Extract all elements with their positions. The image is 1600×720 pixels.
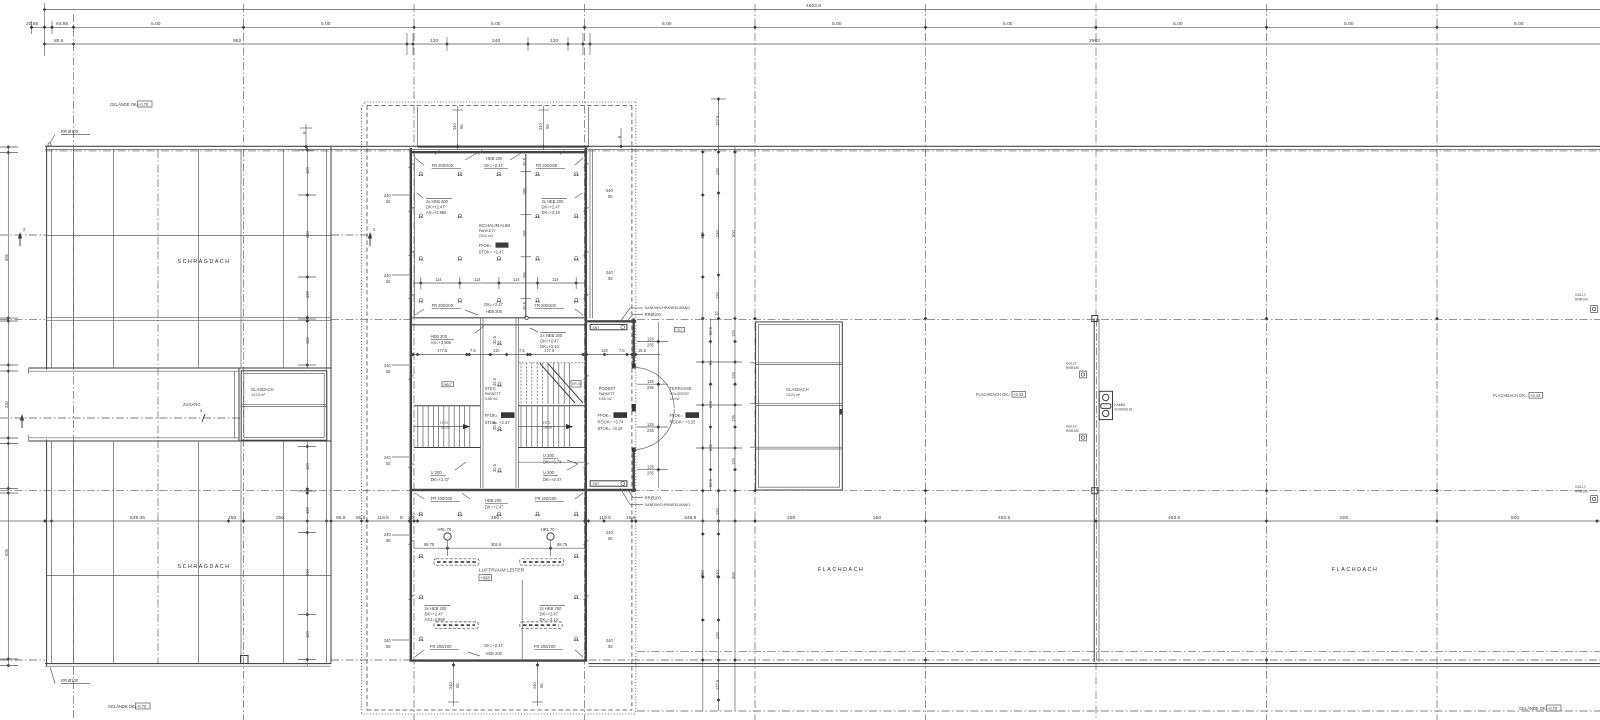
svg-text:240: 240 xyxy=(305,568,310,576)
half-grid column x=158 (halls) xyxy=(157,150,159,664)
svg-text:-0.70: -0.70 xyxy=(137,704,147,709)
dim line A total xyxy=(43,3,1600,56)
labels under schauraum south wall xyxy=(431,326,484,345)
east wall lower segment xyxy=(633,450,635,493)
svg-text:605: 605 xyxy=(4,548,9,556)
svg-text:FR 200/200: FR 200/200 xyxy=(534,644,556,649)
svg-text:FLACHDACH: FLACHDACH xyxy=(1332,567,1378,573)
aisle columns xyxy=(492,335,502,472)
svg-text:605: 605 xyxy=(4,253,9,261)
grid row y=150.9 xyxy=(45,150,410,152)
svg-text:125: 125 xyxy=(731,457,736,465)
svg-text:480: 480 xyxy=(491,515,499,521)
door arc lower xyxy=(634,409,675,450)
svg-text:240: 240 xyxy=(492,38,500,44)
svg-text:96.9: 96.9 xyxy=(336,515,346,521)
svg-text:18/28: 18/28 xyxy=(440,426,449,430)
svg-text:RR Ø100: RR Ø100 xyxy=(61,129,79,134)
svg-text:55: 55 xyxy=(455,683,460,688)
svg-text:ROOK= +3.74: ROOK= +3.74 xyxy=(598,420,625,425)
svg-text:HEB 200: HEB 200 xyxy=(486,309,503,314)
svg-text:5.00: 5.00 xyxy=(1173,21,1183,27)
svg-text:HTG: HTG xyxy=(543,421,551,425)
corridor top edge (upper hall bottom) xyxy=(29,367,240,369)
GELAENDE box bottom-left xyxy=(108,703,150,709)
svg-text:240: 240 xyxy=(538,122,543,130)
schauraum south boundary double line xyxy=(410,317,588,319)
svg-text:ZUGANG: ZUGANG xyxy=(183,402,201,407)
PODEST labels xyxy=(599,386,616,401)
svg-text:120: 120 xyxy=(305,290,310,298)
dim labels along y=521 xyxy=(130,515,1519,521)
drain square on lower hall bottom edge xyxy=(241,656,249,664)
svg-text:+3.7: +3.7 xyxy=(676,328,683,332)
svg-text:85.6: 85.6 xyxy=(54,38,64,44)
svg-text:FR 200/200: FR 200/200 xyxy=(535,303,557,308)
svg-text:+2.78: +2.78 xyxy=(687,413,698,418)
gully right-2 xyxy=(1575,485,1597,502)
svg-text:114: 114 xyxy=(435,277,442,282)
hatched strips row1 xyxy=(434,559,564,565)
svg-text:30.5: 30.5 xyxy=(522,301,527,310)
gully right-1 xyxy=(1575,293,1597,312)
svg-text:HEB 200: HEB 200 xyxy=(485,498,502,503)
svg-text:FR 200/200: FR 200/200 xyxy=(535,496,557,501)
svg-text:RRØ100: RRØ100 xyxy=(645,496,662,501)
grid row y=651.3 right xyxy=(637,650,1600,652)
lower hall eave line xyxy=(47,575,331,577)
svg-text:SCHRÄGDACH: SCHRÄGDACH xyxy=(178,563,231,570)
svg-text:STOK= +2.47: STOK= +2.47 xyxy=(479,250,505,255)
grid column 8 x=1266.5 xyxy=(1266,4,1268,720)
top edge double line xyxy=(45,145,1600,147)
svg-text:10: 10 xyxy=(714,311,719,316)
dotted envelope xyxy=(362,102,636,714)
svg-text:15.6: 15.6 xyxy=(626,515,636,521)
svg-text:13.24 m²: 13.24 m² xyxy=(251,393,266,397)
svg-text:OK=+2.47: OK=+2.47 xyxy=(484,643,503,648)
svg-text:30.5: 30.5 xyxy=(522,157,527,166)
glasdach east box xyxy=(750,322,842,490)
podest north wall xyxy=(587,320,636,322)
svg-text:2x HEB 200: 2x HEB 200 xyxy=(540,606,563,611)
svg-text:250: 250 xyxy=(873,515,881,521)
dim line y=357.3 xyxy=(410,348,660,356)
small dim 8/120 near x=306 top xyxy=(300,124,312,150)
svg-text:SCHRÄGDACH: SCHRÄGDACH xyxy=(178,258,231,265)
TERRASSE labels xyxy=(670,386,692,401)
svg-text:HEB 200: HEB 200 xyxy=(486,651,503,656)
svg-text:88.75: 88.75 xyxy=(557,542,568,547)
svg-text:TERRASSE: TERRASSE xyxy=(670,386,692,391)
mid wall (stair/luftraum separation) xyxy=(410,489,588,491)
svg-text:125: 125 xyxy=(647,422,655,427)
svg-text:-0.70: -0.70 xyxy=(1548,706,1558,711)
halls right wall xyxy=(330,146,332,663)
luftraum columns row xyxy=(419,512,579,516)
svg-text:185: 185 xyxy=(522,271,527,279)
grid row y=660 near bottom edge xyxy=(0,659,45,661)
svg-text:SNT: SNT xyxy=(593,482,600,486)
boxed +3.78 level xyxy=(675,327,685,332)
svg-text:240: 240 xyxy=(384,638,392,643)
gully mid-2 xyxy=(1066,425,1086,441)
svg-text:177.5: 177.5 xyxy=(544,348,555,353)
svg-text:AX=+3.986: AX=+3.986 xyxy=(426,210,447,215)
room west wall xyxy=(410,148,412,662)
upper hall ridge double line y=318.5 xyxy=(47,316,331,318)
svg-text:U 200: U 200 xyxy=(543,453,555,458)
svg-text:+2.52: +2.52 xyxy=(502,413,513,418)
svg-text:240: 240 xyxy=(384,532,392,537)
upper hall eave line xyxy=(47,235,331,237)
svg-text:62.5: 62.5 xyxy=(708,326,713,335)
svg-text:RNR100: RNR100 xyxy=(1575,489,1588,493)
grid column 4 x=584.5 xyxy=(584,4,586,720)
svg-text:5.65 m2: 5.65 m2 xyxy=(599,397,612,401)
svg-text:120: 120 xyxy=(715,631,720,639)
svg-text:110: 110 xyxy=(493,348,500,353)
svg-text:DK=+2.47: DK=+2.47 xyxy=(485,505,504,510)
svg-text:250: 250 xyxy=(787,515,795,521)
svg-text:5.00: 5.00 xyxy=(321,21,331,27)
svg-text:SANDWICHPANEELWAND: SANDWICHPANEELWAND xyxy=(645,306,691,310)
svg-text:7.5: 7.5 xyxy=(619,348,625,353)
terrasse row ticks xyxy=(696,362,742,448)
east finish lines beside room xyxy=(589,150,591,318)
svg-text:HRL 70: HRL 70 xyxy=(541,527,555,532)
svg-text:5.00: 5.00 xyxy=(832,21,842,27)
svg-text:625: 625 xyxy=(708,443,713,451)
stub dims above north wall xyxy=(452,106,464,150)
svg-text:55: 55 xyxy=(608,536,613,541)
svg-text:+3.43: +3.43 xyxy=(1013,392,1024,397)
svg-text:120: 120 xyxy=(305,630,310,638)
svg-text:SANDWICHPANEELWAND: SANDWICHPANEELWAND xyxy=(645,503,691,507)
svg-text:5.00: 5.00 xyxy=(1003,21,1013,27)
dim chain x=718.5 xyxy=(711,97,726,711)
svg-text:U 200: U 200 xyxy=(543,470,555,475)
svg-text:GLASDACH: GLASDACH xyxy=(786,387,809,392)
svg-text:240: 240 xyxy=(532,681,537,689)
east wall mid hinge xyxy=(632,404,636,412)
luftraum 2x HEB labels xyxy=(425,606,451,623)
luftraum south wall xyxy=(410,659,588,661)
svg-text:OK=+2.47: OK=+2.47 xyxy=(484,163,503,168)
svg-text:64.95: 64.95 xyxy=(56,21,69,27)
grid column 7 x=1096 xyxy=(1095,4,1097,318)
GELAENDE box top-left xyxy=(110,101,152,107)
svg-text:7.5: 7.5 xyxy=(519,348,525,353)
grid column 9 x=1437 xyxy=(1436,4,1438,720)
svg-text:120: 120 xyxy=(715,291,720,299)
labels under mid wall xyxy=(415,493,470,501)
door leaf posts xyxy=(632,364,636,369)
svg-text:114: 114 xyxy=(513,277,520,282)
svg-text:LUFTRAUM LEITER: LUFTRAUM LEITER xyxy=(479,568,525,574)
svg-text:FLACHDACH: FLACHDACH xyxy=(818,567,864,573)
svg-text:500: 500 xyxy=(1340,515,1348,521)
svg-text:PARKETT: PARKETT xyxy=(485,392,502,396)
svg-text:62.5: 62.5 xyxy=(708,478,713,487)
svg-text:55: 55 xyxy=(386,461,391,466)
node at mullion/south wall xyxy=(525,316,528,319)
svg-text:18/28: 18/28 xyxy=(543,426,552,430)
svg-text:240: 240 xyxy=(715,229,720,237)
grid row 2 y=235 left margin with arrow xyxy=(0,227,47,246)
grid column 2 x=243.5 xyxy=(243,4,245,720)
svg-text:120: 120 xyxy=(305,166,310,174)
east wall upper segment xyxy=(633,319,635,367)
flachdach level labels xyxy=(976,391,1026,397)
svg-text:DK=+2.47: DK=+2.47 xyxy=(426,205,445,210)
svg-text:55: 55 xyxy=(608,644,613,649)
svg-text:55: 55 xyxy=(459,124,464,129)
svg-text:2x HEB 200: 2x HEB 200 xyxy=(542,199,565,204)
svg-text:240: 240 xyxy=(384,273,392,278)
svg-text:30.5: 30.5 xyxy=(492,377,497,386)
svg-text:7.5: 7.5 xyxy=(470,348,476,353)
svg-text:125: 125 xyxy=(731,414,736,422)
left stair xyxy=(414,406,481,448)
grid row 2 right margin arrow xyxy=(331,227,376,246)
svg-text:625: 625 xyxy=(708,400,713,408)
FFOK steg xyxy=(485,412,515,425)
svg-text:20.65: 20.65 xyxy=(26,21,39,27)
svg-text:FLACHDACH OK=: FLACHDACH OK= xyxy=(976,392,1011,397)
svg-text:FR 200/200: FR 200/200 xyxy=(536,163,558,168)
svg-text:+2.52: +2.52 xyxy=(497,243,508,248)
svg-text:114: 114 xyxy=(552,277,559,282)
dim chain x=735 xyxy=(731,146,737,711)
svg-text:FR 200/200: FR 200/200 xyxy=(430,644,452,649)
grid column 5 x=755 xyxy=(754,4,756,720)
svg-text:55: 55 xyxy=(386,199,391,204)
svg-text:13.24 m²: 13.24 m² xyxy=(786,393,801,397)
svg-text:125: 125 xyxy=(647,465,655,470)
svg-text:30.5: 30.5 xyxy=(492,335,497,344)
svg-text:95: 95 xyxy=(708,360,713,365)
svg-text:PARKETT: PARKETT xyxy=(479,229,497,233)
mullion line center xyxy=(521,154,532,318)
grid column 1 x=73.5 xyxy=(73,14,75,720)
svg-text:3.58 m2: 3.58 m2 xyxy=(485,397,498,401)
svg-text:DK=+2.47: DK=+2.47 xyxy=(484,302,503,307)
dim line C xyxy=(43,33,1600,55)
svg-text:493.5: 493.5 xyxy=(1168,515,1181,521)
grid column 6 x=925.5 xyxy=(925,4,927,720)
podest south wall xyxy=(587,489,636,491)
svg-text:500: 500 xyxy=(1511,515,1519,521)
svg-text:480: 480 xyxy=(700,231,705,239)
svg-text:PARKETT: PARKETT xyxy=(599,392,616,396)
svg-text:2314 m2: 2314 m2 xyxy=(479,234,494,238)
svg-text:185: 185 xyxy=(522,229,527,237)
hatched strips row2 xyxy=(434,622,562,628)
bottom dashed row y=711 xyxy=(637,710,1600,712)
svg-text:30.5: 30.5 xyxy=(492,421,497,430)
svg-text:120: 120 xyxy=(305,336,310,344)
svg-text:KAMIN: KAMIN xyxy=(1114,403,1125,407)
svg-text:PODEST: PODEST xyxy=(599,386,616,391)
svg-text:HRL 70: HRL 70 xyxy=(438,527,452,532)
svg-text:2x HEB 200: 2x HEB 200 xyxy=(540,333,563,338)
svg-text:RNR100: RNR100 xyxy=(1066,366,1079,370)
svg-text:+3.43: +3.43 xyxy=(1530,393,1541,398)
wall hatch ticks xyxy=(409,150,589,600)
svg-text:-0.70: -0.70 xyxy=(139,102,149,107)
svg-text:235: 235 xyxy=(647,385,655,390)
svg-text:235: 235 xyxy=(647,428,655,433)
svg-text:RNR100: RNR100 xyxy=(1066,429,1079,433)
svg-text:8: 8 xyxy=(400,515,403,521)
svg-text:240: 240 xyxy=(384,363,392,368)
svg-text:15.6: 15.6 xyxy=(638,348,647,353)
corner stubs above north wall xyxy=(417,107,419,146)
wall x=1096 xyxy=(1092,316,1099,663)
svg-text:250: 250 xyxy=(228,515,236,521)
svg-text:HOLZROST: HOLZROST xyxy=(670,392,690,396)
grid row 4 corridor centerline y=418 xyxy=(0,408,240,428)
svg-text:GLASDACH: GLASDACH xyxy=(251,387,274,392)
right stair lower xyxy=(518,406,586,448)
svg-text:302.5: 302.5 xyxy=(491,542,502,547)
sandwich panel labels top xyxy=(620,306,690,322)
svg-text:HTG: HTG xyxy=(440,421,448,425)
lower hall top edge continuation xyxy=(239,440,331,442)
svg-text:5.00: 5.00 xyxy=(151,21,161,27)
svg-text:114: 114 xyxy=(474,277,481,282)
dim line B 500-chain xyxy=(30,21,1600,34)
luftraum side columns xyxy=(419,554,579,641)
svg-text:SCHIEBLIG: SCHIEBLIG xyxy=(1114,407,1132,411)
svg-text:127.5: 127.5 xyxy=(715,679,720,690)
bottom edge left hall xyxy=(45,663,331,665)
svg-text:DK=+2.47: DK=+2.47 xyxy=(543,477,562,482)
svg-text:500: 500 xyxy=(731,571,736,579)
terrasse 125/235 dim column xyxy=(637,322,668,488)
svg-text:185: 185 xyxy=(522,187,527,195)
svg-text:240: 240 xyxy=(606,188,614,193)
svg-text:120: 120 xyxy=(601,348,609,353)
HRL circles xyxy=(438,527,556,540)
svg-text:120: 120 xyxy=(305,506,310,514)
svg-text:480: 480 xyxy=(700,569,705,577)
svg-text:55: 55 xyxy=(386,644,391,649)
svg-text:55: 55 xyxy=(608,276,613,281)
grid row diamonds right area xyxy=(753,317,1439,662)
grid row 3 y=320.7 xyxy=(0,319,45,321)
boxed label HBO xyxy=(442,382,454,387)
svg-text:4603.6: 4603.6 xyxy=(806,3,821,9)
svg-text:235: 235 xyxy=(647,471,655,476)
svg-text:127.5: 127.5 xyxy=(715,115,720,126)
svg-text:STOK= +2.47: STOK= +2.47 xyxy=(485,420,511,425)
svg-text:AX=+3.906: AX=+3.906 xyxy=(431,340,452,345)
114 dim line inside schauraum xyxy=(413,277,586,289)
aisle edges xyxy=(480,318,482,488)
svg-text:HBO: HBO xyxy=(444,383,452,387)
dim line y=548.2 xyxy=(414,540,587,556)
svg-text:55: 55 xyxy=(386,279,391,284)
svg-text:STOK= +3.10: STOK= +3.10 xyxy=(598,426,624,431)
svg-text:DK=+2.47: DK=+2.47 xyxy=(431,477,450,482)
svg-text:55: 55 xyxy=(545,124,550,129)
east strip 240/55 labels xyxy=(606,188,614,649)
svg-text:85.6: 85.6 xyxy=(356,515,366,521)
svg-text:FFOK=: FFOK= xyxy=(670,413,684,418)
svg-text:240: 240 xyxy=(606,530,614,535)
svg-text:55: 55 xyxy=(386,369,391,374)
U200 labels middle xyxy=(543,453,578,465)
svg-text:FR 200/200: FR 200/200 xyxy=(432,163,454,168)
door arc upper xyxy=(634,368,675,409)
svg-text:DK=+2.47: DK=+2.47 xyxy=(542,205,561,210)
svg-text:120: 120 xyxy=(305,462,310,470)
top edge thick segment over showroom xyxy=(418,146,589,148)
svg-text:FR 200/200: FR 200/200 xyxy=(431,496,453,501)
dashed envelope xyxy=(367,106,632,711)
STEG labels xyxy=(485,386,502,401)
hall dim chain x=307.3 lower xyxy=(298,441,316,666)
svg-text:493.5: 493.5 xyxy=(998,515,1011,521)
small dim near x=621 bottom (8/120) xyxy=(617,128,623,148)
svg-text:DK=+2.47: DK=+2.47 xyxy=(540,612,559,617)
SNT box top xyxy=(590,324,627,329)
svg-text:240: 240 xyxy=(715,569,720,577)
room north wall xyxy=(410,151,588,153)
luftraum bottom labels xyxy=(415,644,459,657)
svg-text:HEB 200: HEB 200 xyxy=(431,334,448,339)
svg-text:125: 125 xyxy=(647,379,655,384)
left margin dim labels xyxy=(4,253,9,556)
corridor end wall xyxy=(238,368,240,441)
svg-text:982: 982 xyxy=(233,38,241,44)
svg-text:235: 235 xyxy=(647,343,655,348)
svg-text:55: 55 xyxy=(386,538,391,543)
svg-text:346.9: 346.9 xyxy=(684,515,697,521)
svg-text:GELÄNDE OK=: GELÄNDE OK= xyxy=(1519,706,1549,711)
svg-text:DK=+3.10: DK=+3.10 xyxy=(540,617,559,622)
svg-text:+2.78: +2.78 xyxy=(615,413,626,418)
svg-text:KR 40: KR 40 xyxy=(572,382,582,386)
schauraum labels xyxy=(465,153,522,169)
svg-text:88.75: 88.75 xyxy=(424,542,435,547)
svg-text:240: 240 xyxy=(305,230,310,238)
svg-text:240: 240 xyxy=(606,270,614,275)
svg-text:240: 240 xyxy=(448,681,453,689)
corridor bottom edge (lower hall top) xyxy=(29,440,240,442)
dim line x=710.5 terrasse xyxy=(708,319,713,492)
svg-text:539.35: 539.35 xyxy=(130,515,145,521)
svg-text:5.00: 5.00 xyxy=(662,21,672,27)
GELAENDE box bottom-right xyxy=(1519,705,1561,711)
kamin symbol xyxy=(1099,391,1132,419)
svg-text:120: 120 xyxy=(430,38,438,44)
svg-text:18 m2: 18 m2 xyxy=(670,397,680,401)
svg-text:+698: +698 xyxy=(481,576,491,581)
svg-text:RNR100: RNR100 xyxy=(1575,297,1588,301)
svg-text:AX1=3.986: AX1=3.986 xyxy=(425,617,446,622)
svg-text:FR 200/200: FR 200/200 xyxy=(432,303,454,308)
svg-text:2x HEB 200: 2x HEB 200 xyxy=(425,606,448,611)
svg-text:ROOK= +3.25: ROOK= +3.25 xyxy=(670,420,697,425)
room east wall xyxy=(585,148,587,662)
svg-text:120: 120 xyxy=(550,38,558,44)
svg-text:DK=+3.10: DK=+3.10 xyxy=(542,210,561,215)
svg-text:125: 125 xyxy=(731,371,736,379)
svg-text:230: 230 xyxy=(4,400,9,408)
